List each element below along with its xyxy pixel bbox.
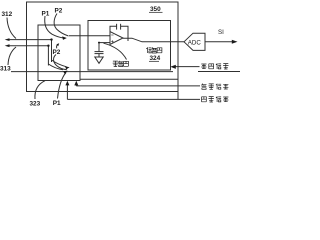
svg-text:312: 312	[2, 11, 13, 18]
switch arm lower	[52, 60, 67, 67]
arrowhead sync up	[65, 81, 69, 86]
wire enable line	[76, 85, 200, 87]
wire reset line	[176, 66, 200, 68]
svg-text:P1: P1	[53, 100, 61, 107]
wire sync stem	[66, 85, 68, 100]
leader 313	[8, 47, 16, 65]
feedback wire right	[121, 26, 128, 41]
ground symbol	[95, 57, 103, 63]
label 放大器	[113, 61, 129, 67]
svg-text:313: 313	[0, 65, 11, 72]
leader amplifier arc	[104, 43, 127, 59]
capacitor C2 plate top	[95, 51, 104, 53]
arrowhead SI output	[232, 40, 238, 44]
capacitor C2 plate bottom	[95, 53, 104, 55]
feedback wire up	[110, 26, 117, 36]
svg-text:P2: P2	[55, 8, 63, 15]
capacitor C1 plate right	[120, 24, 122, 30]
junction node B dot	[47, 45, 49, 47]
op-amp plus mark	[111, 40, 113, 42]
arrowhead lower junction	[65, 66, 70, 69]
arrowhead P1 bottom leader	[63, 71, 68, 75]
wire vertical from node A	[51, 40, 53, 62]
label sync signal	[202, 96, 229, 102]
junction dot plus input	[98, 42, 100, 44]
wire cap to ground	[98, 43, 100, 52]
leader P1 bottom	[58, 73, 67, 99]
switch box 323	[38, 25, 80, 81]
wire plus input	[99, 42, 110, 44]
svg-text:323: 323	[30, 101, 41, 108]
label reset signal	[201, 63, 228, 69]
wire reset segment under label	[198, 71, 240, 73]
leader P2 top	[54, 14, 68, 37]
wire input 312	[7, 39, 52, 41]
wire cap stem	[98, 54, 100, 57]
svg-text:SI: SI	[218, 29, 224, 36]
arrowhead P2 mid	[57, 43, 60, 46]
leader P2 mid	[57, 44, 58, 48]
junction node A dot	[50, 38, 52, 40]
svg-text:ADC: ADC	[188, 40, 202, 47]
svg-text:P1: P1	[42, 11, 50, 18]
op-amp minus mark	[111, 34, 113, 36]
arrowhead input 312	[5, 38, 10, 41]
wire vertical from node B	[47, 46, 49, 66]
wire op-amp output	[123, 38, 184, 42]
wire enable stem	[75, 85, 77, 86]
underline 324	[149, 60, 159, 62]
switch arm lower 2	[48, 64, 63, 70]
leader 312	[7, 18, 16, 39]
integrator inner box	[88, 21, 171, 71]
leader P2 mid s-curve	[54, 55, 67, 70]
outer box 350	[27, 2, 179, 92]
arrowhead switch top	[62, 36, 67, 40]
ADC block	[184, 33, 205, 50]
arrowhead input 313	[5, 44, 10, 47]
wire input 313	[7, 45, 48, 47]
capacitor C1 plate left	[116, 24, 118, 30]
underline 350	[149, 11, 163, 13]
svg-text:P2: P2	[53, 49, 61, 56]
wire lower junction W1	[11, 71, 173, 73]
arrowhead enable up	[74, 81, 78, 86]
label 积分器	[146, 47, 162, 53]
leader 323	[35, 81, 45, 99]
wire switch output to op-amp	[69, 35, 110, 37]
arrowhead reset left	[170, 65, 176, 69]
leader P1 top	[45, 16, 64, 38]
wire right edge extension	[177, 92, 179, 100]
op-amp U1 triangle	[110, 32, 123, 45]
wire W3	[80, 78, 178, 80]
label enable signal	[202, 84, 229, 90]
wire sync line	[67, 98, 200, 100]
wire ADC output SI	[205, 41, 234, 43]
